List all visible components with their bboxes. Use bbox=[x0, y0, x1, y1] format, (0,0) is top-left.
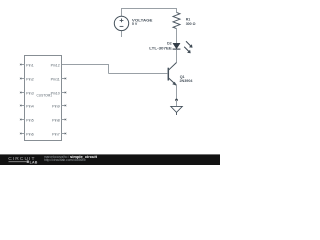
footer credit text bbox=[44, 154, 98, 162]
svg-text:Pin6: Pin6 bbox=[26, 133, 34, 137]
label VOLTAGE 5 V bbox=[132, 19, 153, 26]
svg-text:Pin3: Pin3 bbox=[26, 92, 34, 96]
pin 9 stub bbox=[62, 105, 67, 107]
pin 7 stub bbox=[62, 133, 67, 135]
label D2 LTL-307EE bbox=[149, 42, 172, 51]
svg-text:Pin7: Pin7 bbox=[52, 133, 60, 137]
svg-text:http://circuitlab.com/c8556fw: http://circuitlab.com/c8556fw bbox=[44, 158, 86, 162]
pin 3 stub bbox=[20, 92, 25, 94]
pin 8 stub bbox=[62, 119, 67, 121]
svg-text:Pin2: Pin2 bbox=[26, 78, 34, 82]
svg-text:2N3904: 2N3904 bbox=[180, 79, 194, 83]
wire jog vertical bbox=[108, 65, 110, 74]
junction dot bbox=[175, 99, 178, 102]
svg-text:Pin1: Pin1 bbox=[26, 64, 34, 68]
pin labels right: Pin12 Pin11 Pin10 Pin9 Pin8 Pin7 bbox=[51, 64, 60, 137]
wire R1 to D2 bbox=[176, 28, 178, 43]
wire V1 top stub bbox=[121, 9, 123, 17]
svg-text:LTL-307EE: LTL-307EE bbox=[149, 46, 172, 51]
voltage source V1 bbox=[114, 16, 128, 30]
footer banner bbox=[0, 154, 220, 165]
svg-text:5 V: 5 V bbox=[132, 22, 138, 26]
wire Pin12 to jog bbox=[62, 64, 110, 66]
label R1 300 ohm bbox=[186, 18, 196, 26]
wire jog to Q1 base bbox=[109, 73, 168, 75]
wire R1 top lead bbox=[176, 9, 178, 13]
pin 6 stub bbox=[20, 133, 25, 135]
wire Q1 emitter down bbox=[176, 85, 178, 100]
IC U1 CUSTOM1 body bbox=[25, 56, 62, 141]
svg-text:Pin4: Pin4 bbox=[26, 105, 34, 109]
svg-text:300 Ω: 300 Ω bbox=[186, 22, 196, 26]
svg-text:LAB: LAB bbox=[30, 160, 38, 164]
wire to ground bbox=[176, 100, 178, 107]
wire D2 to Q1 collector bbox=[176, 50, 178, 63]
resistor R1 bbox=[173, 12, 180, 28]
svg-text:CUSTOM1: CUSTOM1 bbox=[37, 94, 53, 98]
pin 4 stub bbox=[20, 105, 25, 107]
CircuitLab logo bbox=[8, 156, 37, 164]
svg-text:Pin11: Pin11 bbox=[51, 78, 60, 82]
pin 5 stub bbox=[20, 119, 25, 121]
svg-text:Pin8: Pin8 bbox=[52, 119, 60, 123]
svg-text:Pin12: Pin12 bbox=[51, 64, 60, 68]
pin 10 stub bbox=[62, 92, 67, 94]
transistor Q1 bbox=[168, 63, 177, 86]
pin 11 stub bbox=[62, 78, 67, 80]
wire top rail from V1 to R1 bbox=[121, 8, 177, 10]
pin labels left: Pin1 Pin2 Pin3 Pin4 Pin5 Pin6 bbox=[26, 64, 34, 137]
wire V1 bottom stub bbox=[121, 31, 123, 37]
pin 1 stub bbox=[20, 64, 25, 66]
label Q1 2N3904 bbox=[180, 75, 194, 83]
svg-text:Pin9: Pin9 bbox=[52, 105, 60, 109]
ground bbox=[171, 106, 183, 115]
svg-text:Pin5: Pin5 bbox=[26, 119, 34, 123]
LED D2 bbox=[173, 41, 193, 53]
pin 2 stub bbox=[20, 78, 25, 80]
